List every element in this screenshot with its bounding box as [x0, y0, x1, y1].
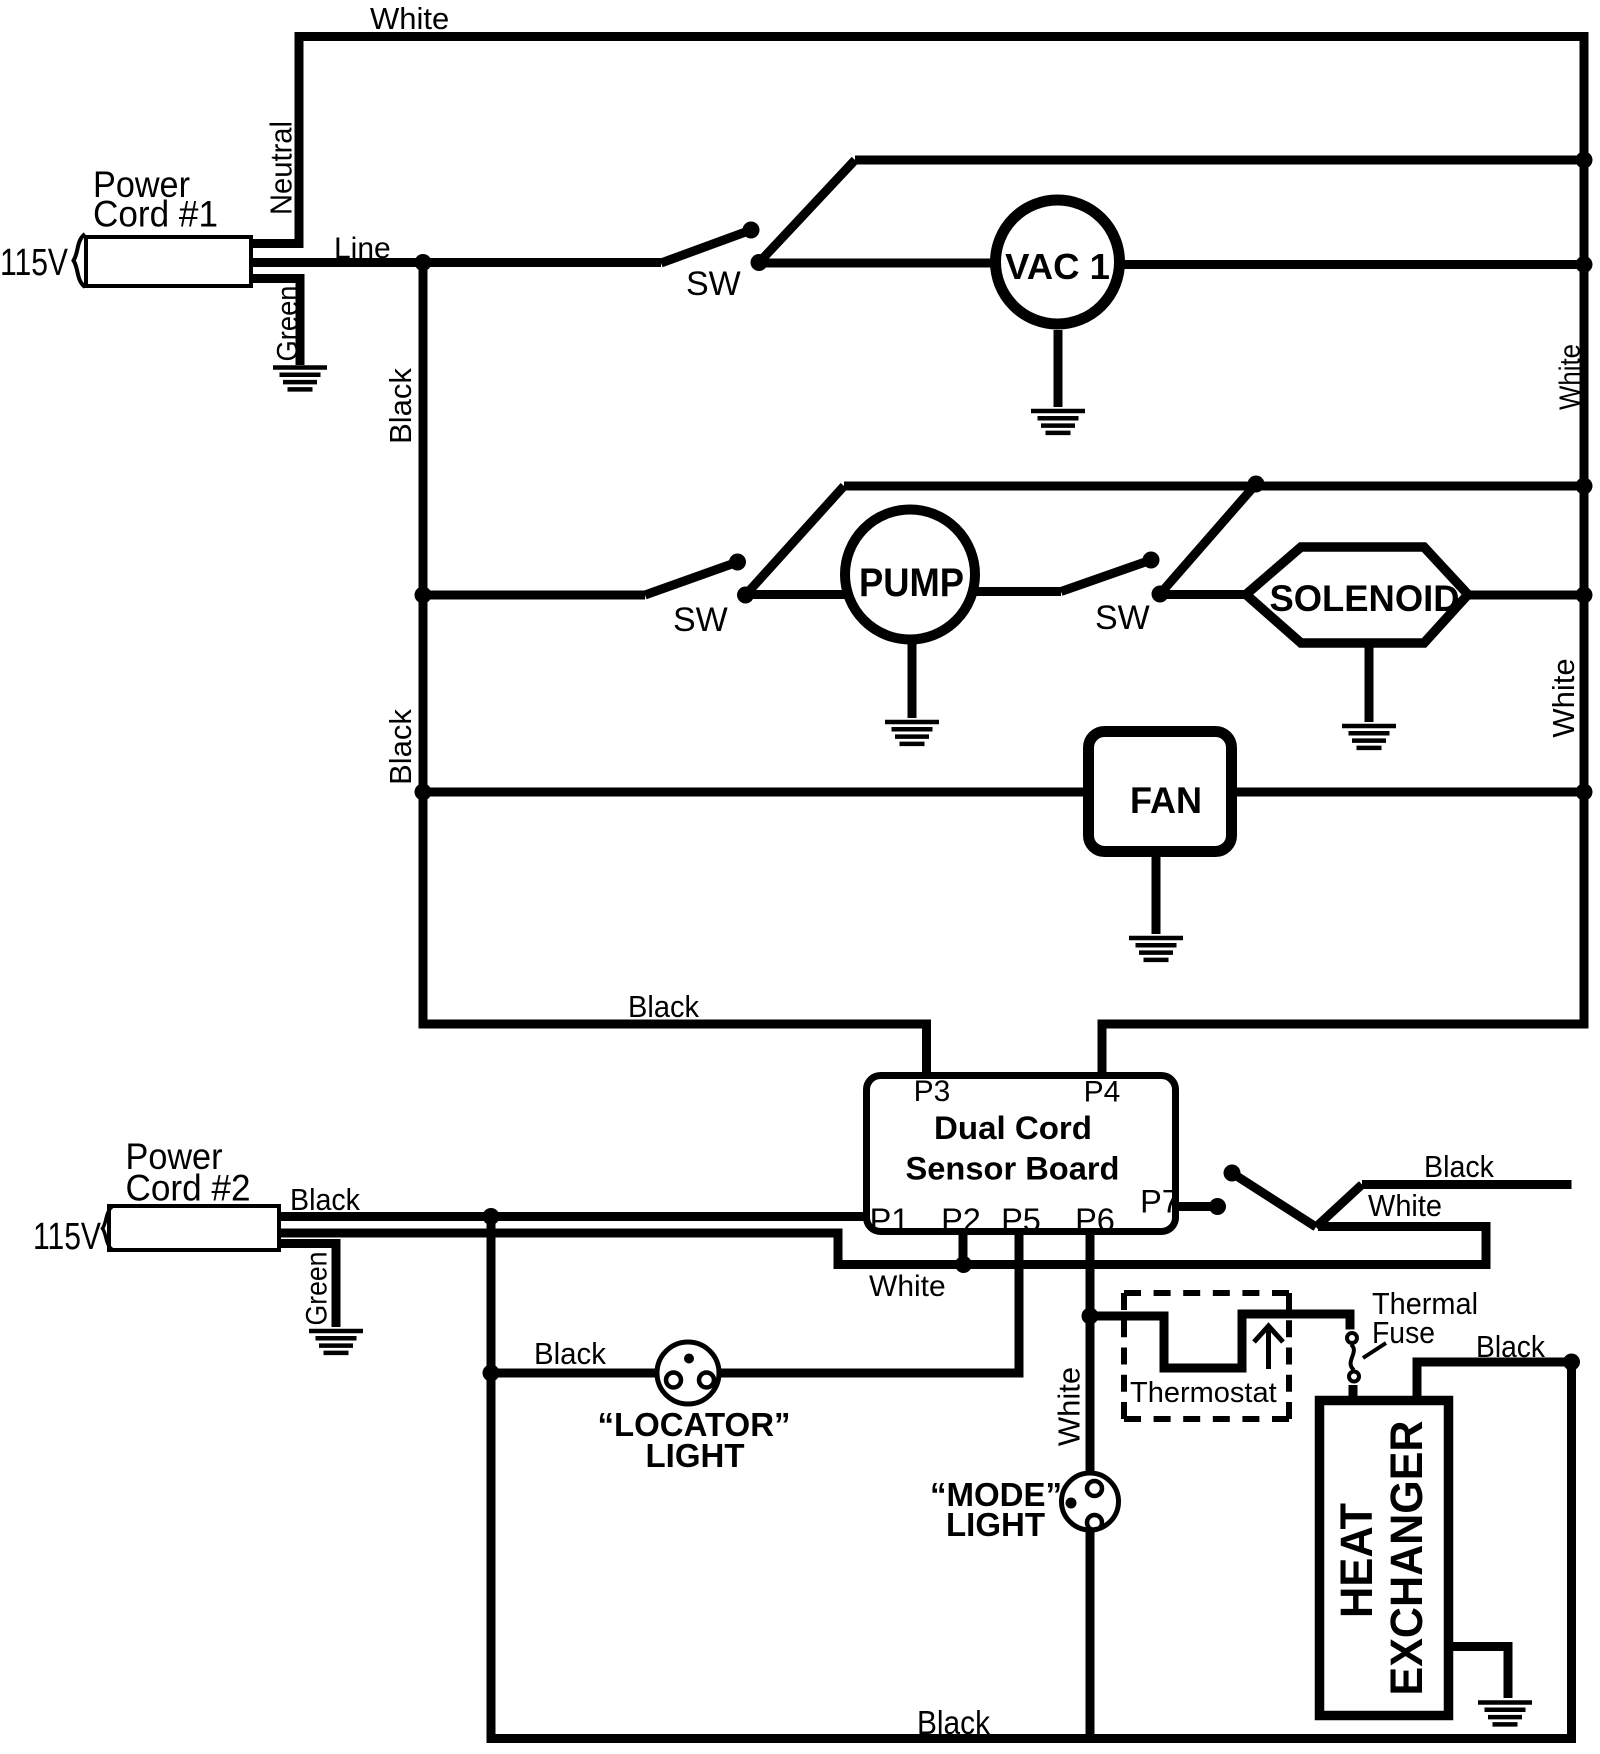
svg-text:Thermostat: Thermostat — [1130, 1377, 1277, 1409]
svg-text:EXCHANGER: EXCHANGER — [1381, 1421, 1432, 1696]
svg-text:Neutral: Neutral — [264, 121, 299, 215]
svg-text:P5: P5 — [1001, 1202, 1041, 1238]
svg-text:Sensor Board: Sensor Board — [906, 1151, 1120, 1187]
svg-text:Black: Black — [1424, 1149, 1494, 1184]
svg-text:White: White — [1546, 658, 1581, 737]
svg-text:SOLENOID: SOLENOID — [1270, 577, 1460, 619]
svg-text:FAN: FAN — [1130, 780, 1202, 821]
svg-text:Black: Black — [383, 709, 418, 785]
svg-text:Black: Black — [290, 1182, 360, 1217]
svg-text:P3: P3 — [914, 1075, 951, 1108]
svg-text:P2: P2 — [941, 1202, 981, 1238]
svg-text:VAC 1: VAC 1 — [1005, 246, 1110, 287]
svg-text:White: White — [1555, 344, 1587, 410]
svg-text:Black: Black — [1476, 1329, 1545, 1364]
svg-text:Black: Black — [628, 989, 699, 1024]
svg-text:SW: SW — [673, 601, 728, 639]
svg-text:P6: P6 — [1075, 1202, 1115, 1238]
svg-text:Black: Black — [383, 368, 418, 444]
svg-text:115V: 115V — [33, 1216, 102, 1258]
svg-text:115V: 115V — [0, 242, 69, 284]
svg-text:PUMP: PUMP — [859, 561, 964, 605]
svg-text:White: White — [1052, 1367, 1087, 1446]
svg-text:Line: Line — [334, 232, 391, 265]
svg-text:P7: P7 — [1140, 1184, 1180, 1220]
svg-text:LIGHT: LIGHT — [946, 1506, 1045, 1543]
svg-text:P4: P4 — [1084, 1076, 1121, 1109]
svg-text:HEAT: HEAT — [1331, 1503, 1382, 1618]
svg-text:Green: Green — [300, 1252, 333, 1326]
svg-text:Fuse: Fuse — [1372, 1315, 1435, 1350]
svg-text:Green: Green — [271, 286, 304, 362]
svg-text:LIGHT: LIGHT — [646, 1437, 745, 1474]
svg-text:Cord #2: Cord #2 — [126, 1168, 251, 1209]
svg-text:Cord #1: Cord #1 — [93, 194, 218, 235]
svg-text:P1: P1 — [870, 1202, 910, 1238]
svg-text:Dual Cord: Dual Cord — [934, 1110, 1092, 1146]
svg-text:White: White — [370, 1, 449, 36]
svg-text:White: White — [1368, 1188, 1442, 1223]
svg-text:SW: SW — [686, 265, 741, 303]
svg-text:White: White — [869, 1270, 946, 1303]
svg-text:Black: Black — [534, 1336, 606, 1371]
svg-text:SW: SW — [1095, 599, 1150, 637]
svg-text:Black: Black — [917, 1704, 990, 1741]
